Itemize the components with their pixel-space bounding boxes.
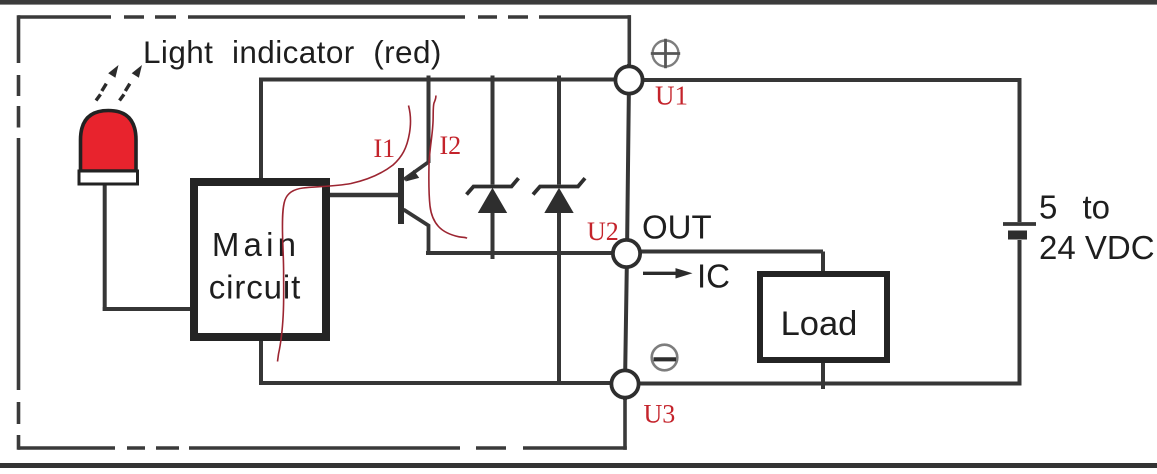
svg-text:U3: U3 [644,400,676,429]
svg-text:to: to [1083,189,1111,226]
svg-text:I1: I1 [374,134,396,163]
svg-text:Light indicator (red): Light indicator (red) [143,34,442,70]
svg-text:IC: IC [697,258,730,295]
svg-text:U2: U2 [587,217,619,246]
svg-text:circuit: circuit [209,269,301,306]
svg-text:U1: U1 [655,81,688,111]
svg-text:Load: Load [781,305,858,343]
svg-text:I2: I2 [440,131,462,160]
svg-text:OUT: OUT [642,209,712,246]
svg-text:5: 5 [1039,189,1057,226]
svg-text:24 VDC: 24 VDC [1039,229,1155,266]
svg-text:Main: Main [212,226,300,263]
